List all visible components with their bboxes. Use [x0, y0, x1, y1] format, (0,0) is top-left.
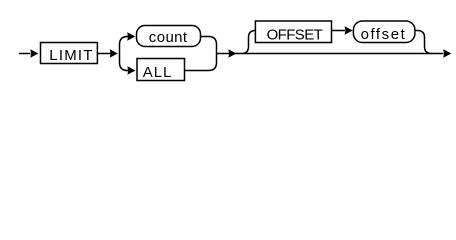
wire count to merge	[185, 37, 217, 71]
branch split vertical	[120, 37, 128, 71]
arrow into offset	[345, 26, 353, 34]
arrow into count	[127, 32, 135, 40]
svg-text:offset: offset	[361, 26, 407, 43]
terminal stadium count	[137, 26, 201, 47]
keyword box ALL	[137, 59, 185, 81]
keyword box OFFSET	[255, 21, 331, 43]
wire split to count arrow	[126, 36, 129, 38]
arrow on rail after merge	[228, 49, 236, 57]
arrow into LIMIT	[30, 49, 38, 57]
svg-text:count: count	[149, 29, 188, 46]
svg-text:OFFSET: OFFSET	[267, 26, 323, 43]
arrow into split	[110, 49, 118, 57]
wire rail up to OFFSET branch	[242, 31, 256, 54]
wire start rail	[19, 53, 31, 55]
terminal stadium offset	[353, 21, 415, 43]
arrow into ALL	[127, 66, 135, 74]
wire merge rail to end	[217, 53, 444, 55]
wire offset branch down to rail	[415, 31, 432, 54]
wire LIMIT to split	[97, 53, 110, 55]
svg-text:ALL: ALL	[143, 64, 173, 81]
keyword box LIMIT	[41, 43, 98, 64]
arrow end of diagram	[443, 49, 451, 57]
wire OFFSET to offset	[332, 30, 346, 32]
svg-text:LIMIT: LIMIT	[49, 47, 93, 64]
wire split to ALL arrow	[126, 70, 130, 72]
